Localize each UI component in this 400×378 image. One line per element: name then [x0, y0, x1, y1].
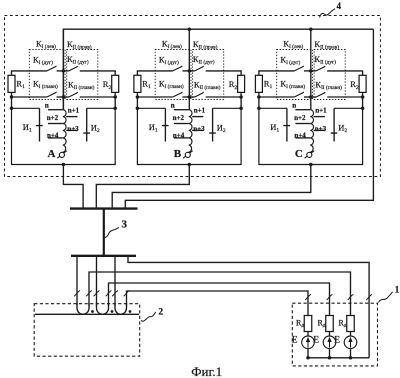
winding tap n lead (block A)	[48, 109, 63, 111]
resistor R1 (block A)	[8, 75, 15, 92]
winding coil (block B)	[188, 110, 192, 153]
wire: branch 3 resistor to source	[350, 332, 352, 337]
resistor R2 (block B)	[238, 75, 245, 92]
resistor Rd branch 1	[304, 316, 312, 332]
junction box top-left (block C)	[257, 107, 261, 111]
connector tick right wire 4	[366, 294, 372, 300]
junction branch 2 bottom	[328, 356, 332, 360]
box: measuring cell (block C)	[259, 108, 363, 164]
junction top wire phase C feed	[309, 27, 313, 31]
connector tick left wire 6	[124, 291, 130, 297]
wire: fixed contact segment main row (block B)	[183, 96, 195, 98]
resistor Rd branch 3	[347, 316, 355, 332]
wire: feeder drop into block С	[310, 29, 312, 110]
junction main row center (block A)	[62, 95, 66, 99]
wire: block B output to busbar	[96, 165, 189, 209]
coupling loop 1	[77, 303, 89, 314]
dotted enclosure switch group K-I (block B)	[155, 50, 191, 100]
leader squiggle to label 1	[378, 292, 392, 303]
wire: main row left segment (block A)	[12, 96, 47, 98]
junction dug-row center (block A)	[62, 69, 66, 73]
dotted enclosure switch group K-II (block C)	[314, 50, 345, 100]
current source E branch 3	[344, 336, 357, 349]
connector tick left wire 2	[86, 291, 92, 297]
wire: unit 1 bottom rail	[308, 357, 369, 359]
wire: right rail into box (block C)	[362, 97, 364, 108]
wire: busbar drop to loop 2 left leg	[96, 256, 98, 306]
switch blade K-II(dug) (block B)	[195, 66, 204, 71]
wire: main row right segment (block C)	[327, 96, 362, 98]
busbar bottom bar	[71, 255, 136, 257]
winding tap n+4 lead (block B)	[174, 137, 189, 139]
winding tap n+2 lead (block B)	[174, 123, 189, 125]
wire: main row right segment (block A)	[80, 96, 115, 98]
junction main row center (block C)	[309, 95, 313, 99]
svg-text:n+4: n+4	[173, 131, 185, 139]
svg-text:n+4: n+4	[294, 131, 306, 139]
wire: feeder drop into block А	[62, 29, 64, 110]
winding coil (block C)	[310, 110, 314, 153]
switch blade K-I(dug) (block A)	[47, 66, 57, 71]
svg-text:n+4: n+4	[47, 131, 59, 139]
wire: R1 bottom stub (block B)	[136, 92, 138, 97]
wire: left rail top corner to switch K-I(dug) (block C)	[259, 71, 294, 75]
dashed box unit 2	[34, 304, 140, 357]
wire: main row right segment (block B)	[206, 96, 241, 98]
junction main row center (block B)	[188, 95, 192, 99]
connector tick right wire 3	[348, 294, 354, 300]
wire: busbar drop to loop 1 left leg	[76, 256, 78, 306]
leader squiggle to label 4	[320, 9, 336, 18]
switch blade K-II(glavn) (block A)	[69, 92, 78, 97]
svg-text:3: 3	[121, 218, 127, 230]
wire: dug row to right rail corner (block A)	[80, 71, 115, 75]
wire: branch 1 resistor to source	[307, 332, 309, 337]
electrode I1 (block C)	[283, 108, 290, 141]
wire: unit 2 internal rail	[35, 313, 139, 315]
junction main row right (block C)	[361, 95, 365, 99]
junction box bottom center (block A)	[62, 163, 66, 167]
junction main row left (block A)	[10, 95, 14, 99]
winding tap n+4 lead (block A)	[48, 137, 63, 139]
winding tap n+2 lead (block C)	[295, 123, 310, 125]
movable contact stroke (block B)	[183, 151, 193, 159]
winding tap n lead (block B)	[174, 109, 189, 111]
wire: dug row to right rail corner (block C)	[327, 71, 362, 75]
svg-text:Е: Е	[313, 335, 319, 345]
dotted enclosure switch group K-II (block B)	[193, 50, 224, 100]
busbar riser	[103, 209, 105, 256]
box: measuring cell (block B)	[137, 108, 241, 164]
resistor R1 (block B)	[134, 75, 141, 92]
switch blade K-I(glavn) (block B)	[173, 92, 183, 97]
winding coil (block A)	[62, 110, 66, 153]
polarity dot loop 2	[111, 310, 114, 313]
wire: left rail top corner to switch K-I(dug) (block A)	[12, 71, 47, 75]
wire: left rail top corner to switch K-I(dug) (block B)	[137, 71, 172, 75]
wire: branch 1 source to bottom rail	[307, 349, 309, 358]
current source E branch 1	[302, 336, 315, 349]
box: measuring cell (block A)	[12, 108, 116, 164]
svg-text:Е: Е	[334, 335, 340, 345]
svg-text:n+3: n+3	[315, 125, 327, 133]
wire: block C output to busbar	[112, 165, 311, 209]
svg-text:n+1: n+1	[315, 107, 327, 115]
svg-text:n+3: n+3	[67, 125, 79, 133]
dotted enclosure switch group K-I (block A)	[29, 50, 65, 100]
junction box bottom center (block B)	[188, 163, 192, 167]
winding tap n+2 lead (block A)	[48, 123, 63, 125]
junction branch 3 bottom	[349, 356, 353, 360]
svg-text:В: В	[174, 148, 182, 160]
wire: feeder drop into block В	[188, 29, 190, 110]
wire: branch 3 source to bottom rail	[350, 349, 352, 358]
connector tick left wire 5	[112, 291, 118, 297]
connector tick left wire 4	[106, 291, 112, 297]
switch blade K-I(dug) (block C)	[294, 66, 304, 71]
movable contact circle (block B)	[185, 152, 190, 157]
svg-text:А: А	[48, 148, 56, 160]
wire: fixed contact segment at dug row (block B)	[183, 70, 195, 72]
polarity dot loop 1	[91, 310, 94, 313]
svg-text:n: n	[45, 101, 49, 109]
winding tap n+3 lead (block C)	[314, 129, 325, 131]
wire: R2 bottom stub (block C)	[362, 92, 364, 97]
electrode I2 (block A)	[83, 108, 90, 141]
svg-text:n+1: n+1	[194, 107, 206, 115]
electrode I1 (block B)	[162, 108, 169, 141]
switch blade K-II(glavn) (block C)	[316, 92, 325, 97]
wire: right-side drop from top wire to busbar	[125, 29, 373, 208]
junction top wire phase B feed	[188, 27, 192, 31]
wire: unit1 branch2 return to loop2	[109, 283, 330, 316]
wire: unit1 branch1 return to loop3	[127, 291, 309, 316]
svg-text:n: n	[292, 101, 296, 109]
switch blade K-II(dug) (block C)	[316, 66, 325, 71]
wire: left rail into box (block B)	[136, 97, 138, 108]
svg-text:С: С	[295, 148, 303, 160]
svg-text:n+1: n+1	[68, 107, 80, 115]
winding tap n+1 lead (block C)	[314, 116, 325, 118]
svg-text:n+2: n+2	[294, 114, 306, 122]
svg-text:n+3: n+3	[193, 125, 205, 133]
svg-text:n+2: n+2	[173, 114, 185, 122]
wire: main row left segment (block C)	[259, 96, 294, 98]
wire: R1 bottom stub (block A)	[11, 92, 13, 97]
connector tick right wire 1	[305, 294, 311, 300]
wire: branch 2 source to bottom rail	[329, 349, 331, 358]
winding tap n+3 lead (block A)	[66, 129, 77, 131]
polarity dot loop 3	[129, 310, 132, 313]
junction main row right (block A)	[113, 95, 117, 99]
junction dug-row center (block B)	[188, 69, 192, 73]
winding tap n+3 lead (block B)	[192, 129, 203, 131]
wire: R1 bottom stub (block C)	[258, 92, 260, 97]
switch blade K-II(glavn) (block B)	[195, 92, 204, 97]
wire: right rail into box (block B)	[240, 97, 242, 108]
junction box bottom center (block C)	[309, 163, 313, 167]
leader squiggle to label 3	[105, 227, 119, 237]
wire: dug row to right rail corner (block B)	[206, 71, 241, 75]
wire: fixed contact segment main row (block A)	[57, 96, 69, 98]
switch blade K-I(glavn) (block A)	[47, 92, 57, 97]
busbar top bar	[70, 207, 138, 209]
winding tap n lead (block C)	[295, 109, 310, 111]
dotted enclosure switch group K-I (block C)	[277, 50, 313, 100]
winding tap n+4 lead (block C)	[295, 137, 310, 139]
winding tap n+1 lead (block B)	[192, 116, 203, 118]
dashed box unit 1	[292, 303, 377, 366]
wire: R2 bottom stub (block A)	[114, 92, 116, 97]
wire: busbar feeder to unit 1	[128, 256, 369, 358]
wire: fixed contact segment at dug row (block C)	[304, 70, 316, 72]
junction dug-row center (block C)	[309, 69, 313, 73]
wire: block A output to busbar	[63, 165, 83, 209]
junction main row right (block B)	[239, 95, 243, 99]
connector tick left wire 1	[74, 291, 80, 297]
svg-text:1: 1	[395, 285, 400, 295]
resistor R2 (block A)	[112, 75, 119, 92]
current source E branch 2	[323, 336, 336, 349]
movable contact stroke (block A)	[57, 151, 67, 159]
wire: top feeder bus	[63, 29, 373, 110]
leader squiggle to label 2	[141, 312, 156, 321]
switch blade K-I(dug) (block B)	[173, 66, 183, 71]
coupling loop 2	[97, 303, 109, 314]
wire: main row left segment (block B)	[137, 96, 172, 98]
electrode I1 (block A)	[36, 108, 43, 141]
resistor Rd branch 2	[326, 316, 334, 332]
svg-text:Е: Е	[292, 335, 298, 345]
connector tick left wire 3	[94, 291, 100, 297]
junction box top-right (block A)	[113, 107, 117, 111]
junction branch 1 bottom	[306, 356, 310, 360]
movable contact circle (block A)	[59, 152, 64, 157]
electrode I2 (block B)	[209, 108, 216, 141]
wire: busbar drop to loop 3 left leg	[114, 256, 116, 306]
junction box top-left (block B)	[136, 107, 140, 111]
coupling loop 3	[115, 303, 127, 314]
resistor R1 (block C)	[255, 75, 262, 92]
svg-text:n: n	[171, 101, 175, 109]
dotted enclosure switch group K-II (block A)	[67, 50, 98, 100]
switch blade K-II(dug) (block A)	[69, 66, 78, 71]
junction box top-right (block B)	[239, 107, 243, 111]
junction box top-left (block A)	[10, 107, 14, 111]
junction main row left (block B)	[136, 95, 140, 99]
svg-text:4: 4	[337, 1, 342, 11]
switch blade K-I(glavn) (block C)	[294, 92, 304, 97]
dashed frame unit 4	[5, 16, 381, 177]
resistor R2 (block C)	[359, 75, 366, 92]
winding tap n+1 lead (block A)	[66, 116, 77, 118]
wire: fixed contact segment at dug row (block A)	[57, 70, 69, 72]
junction box top-right (block C)	[361, 107, 365, 111]
electrode I2 (block C)	[331, 108, 338, 141]
movable contact circle (block C)	[307, 152, 312, 157]
wire: right rail into box (block A)	[114, 97, 116, 108]
svg-text:2: 2	[158, 308, 163, 318]
svg-text:Фиг.1: Фиг.1	[191, 364, 222, 378]
movable contact stroke (block C)	[305, 151, 315, 159]
junction main row left (block C)	[257, 95, 261, 99]
wire: left rail into box (block A)	[11, 97, 13, 108]
svg-text:n+2: n+2	[47, 114, 59, 122]
wire: R2 bottom stub (block B)	[240, 92, 242, 97]
wire: unit1 branch3 return to loop1	[89, 272, 351, 316]
wire: left rail into box (block C)	[258, 97, 260, 108]
wire: fixed contact segment main row (block C)	[304, 96, 316, 98]
connector tick right wire 2	[327, 294, 333, 300]
wire: branch 2 resistor to source	[329, 332, 331, 337]
